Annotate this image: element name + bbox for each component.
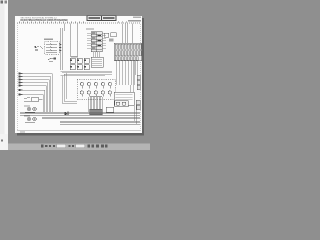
lamp cluster L1 <box>25 107 36 112</box>
sidebar top icons <box>1 1 4 4</box>
bottom frame tiny page number <box>20 131 25 132</box>
connector CN11 (small box top-right) <box>111 33 117 37</box>
relay R2 <box>77 58 82 63</box>
connector CN10 (small box right of TB1) <box>104 33 109 37</box>
title box pair <box>87 16 116 21</box>
frame tick row <box>19 21 127 24</box>
document page <box>15 16 142 133</box>
bottom toolbar band <box>0 144 150 151</box>
wire vertical bus pair center-left <box>61 28 63 70</box>
wires descending from U2 <box>116 61 137 86</box>
junction cluster bottom-left <box>24 97 43 101</box>
relay R3 <box>84 58 89 63</box>
wires right side descend to lower bus <box>130 61 137 125</box>
key switch SW1 <box>35 46 44 50</box>
relay R6 <box>84 65 89 70</box>
wire diagonal feeders left of PV1 <box>62 73 77 104</box>
relay R1 <box>70 58 75 63</box>
diode D1 <box>65 112 69 116</box>
PV1 caption <box>90 96 102 97</box>
relay row label <box>71 56 78 57</box>
left sidebar <box>0 0 8 150</box>
pilot valve dashed box PV1 <box>77 79 115 99</box>
TB1 top label <box>86 29 94 30</box>
page shadow <box>142 18 144 135</box>
fuse box label <box>44 39 53 40</box>
main bus wires <box>20 112 140 124</box>
fuse box FB1 <box>45 42 60 55</box>
gauge G1 G2 <box>115 101 129 107</box>
viewer canvas background <box>0 0 150 150</box>
wire top feeds <box>64 24 77 58</box>
harness bundle wires <box>89 97 103 112</box>
wire top-right feeds <box>122 24 132 44</box>
horn B1 <box>48 58 56 62</box>
junction box JB1 <box>31 98 39 102</box>
arrows at fuse box outputs <box>60 44 63 52</box>
svg-text:DC24V 5BH HYDRAULIC CIRCUIT DI: DC24V 5BH HYDRAULIC CIRCUIT DIAGRAM <box>21 19 68 22</box>
TB1 side pig-tails <box>87 33 106 48</box>
terminal block TB1 (center) <box>91 32 102 52</box>
top-right tiny text <box>128 20 141 21</box>
wires below TB1 <box>93 52 99 58</box>
sidebar bottom mark <box>1 140 3 142</box>
relay R4 <box>70 65 75 70</box>
small box CN21 <box>106 107 114 113</box>
lamp cluster L2 <box>25 117 36 122</box>
solenoid SV2 row <box>80 91 111 97</box>
relay R5 <box>77 65 82 70</box>
relay contacts marks <box>71 60 86 68</box>
solenoid SV1 <box>80 82 111 88</box>
valve solenoid bank U2 (top right dense block) <box>114 43 142 61</box>
harness connector CN20 <box>90 109 103 115</box>
right edge connector strip CN30 <box>136 75 140 110</box>
wire horizontal band under relays <box>61 71 113 76</box>
ladder wires to bus <box>23 74 53 113</box>
drawing frame border <box>17 23 140 131</box>
controller box U3 <box>91 57 103 67</box>
label text under CN11 <box>109 39 114 42</box>
legend box NB1 <box>114 92 134 105</box>
left connector ladder CN1-CN7 <box>19 74 23 95</box>
